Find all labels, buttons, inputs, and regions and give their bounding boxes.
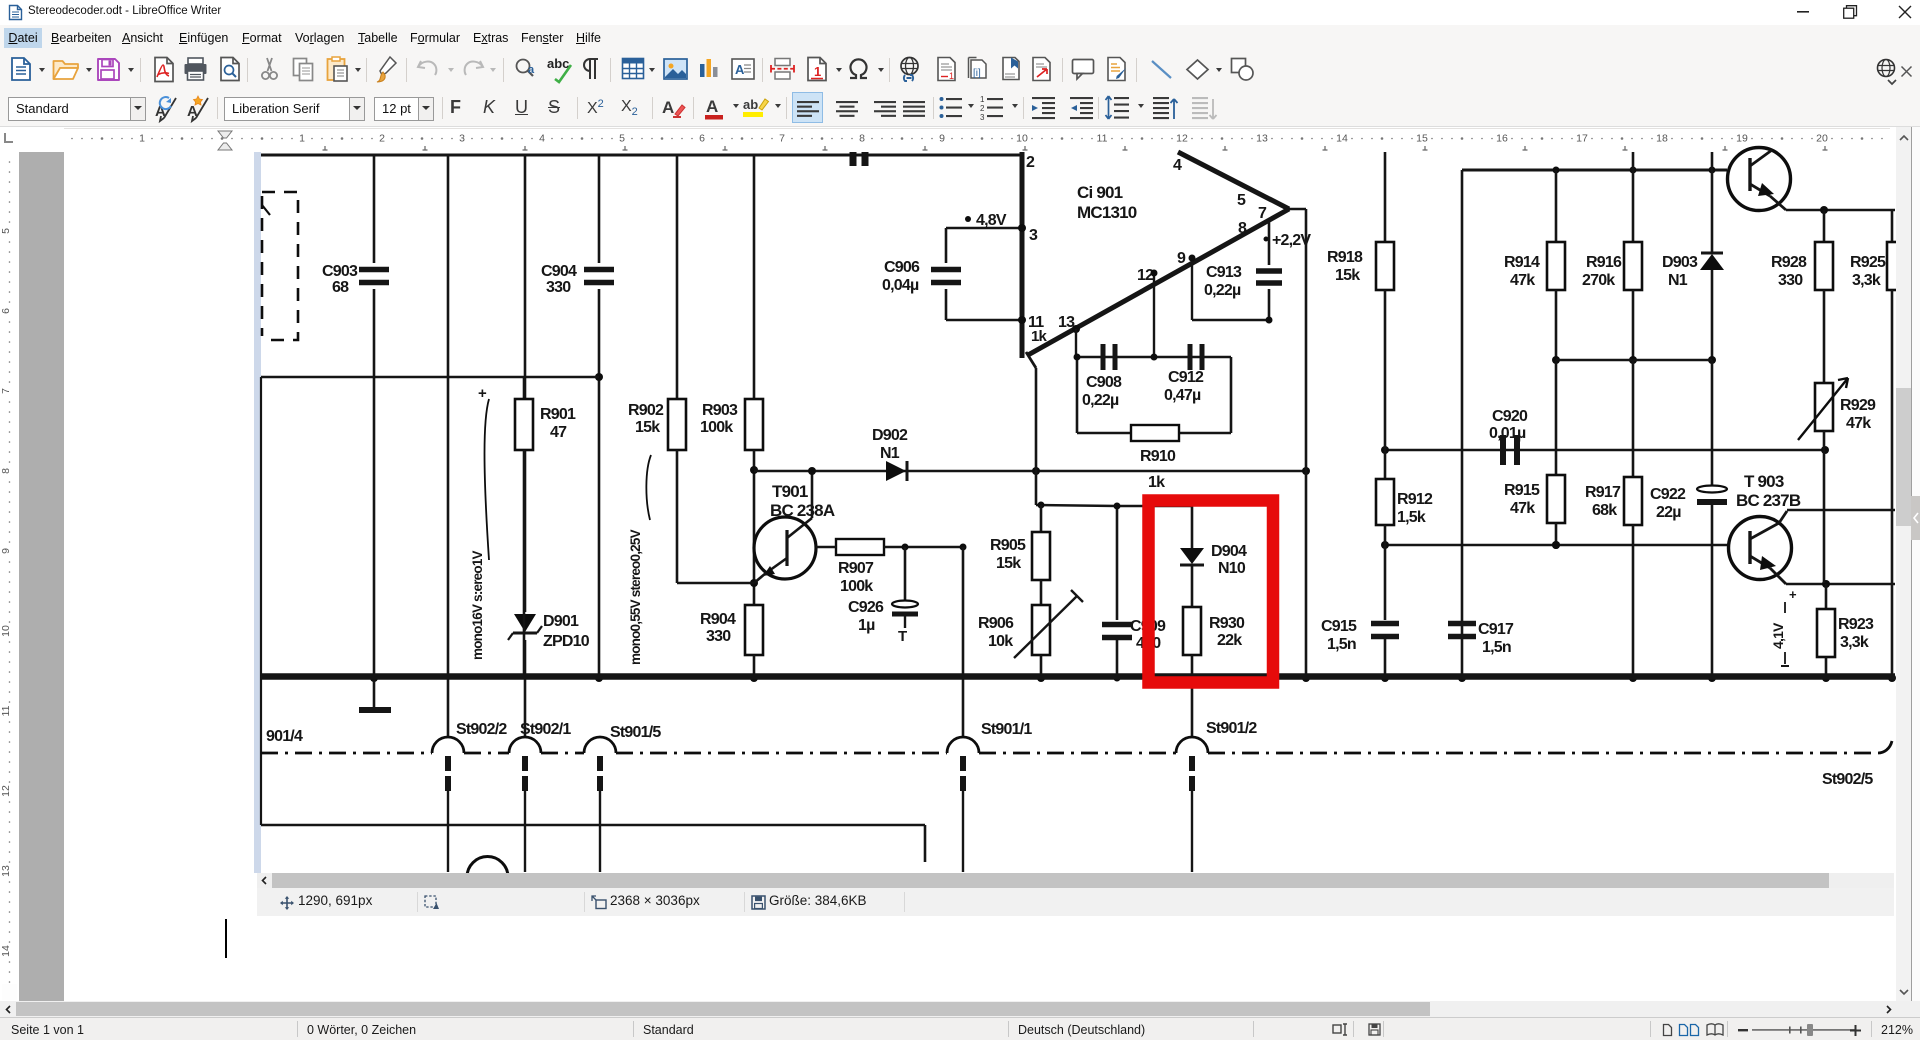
svg-text:4: 4 [1173,157,1182,174]
svg-text:15k: 15k [1335,267,1360,284]
svg-text:C913: C913 [1206,264,1242,281]
svg-text:22µ: 22µ [1656,504,1681,521]
svg-text:12: 12 [0,785,12,797]
svg-text:15k: 15k [996,555,1021,572]
svg-text:15: 15 [1416,133,1428,145]
svg-text:3: 3 [459,133,465,145]
svg-text:R906: R906 [978,615,1014,632]
svg-text:R916: R916 [1586,254,1622,271]
svg-text:C903: C903 [322,263,358,280]
svg-text:ZPD10: ZPD10 [543,633,590,650]
svg-text:5: 5 [1237,192,1246,209]
svg-text:1k: 1k [1148,474,1165,491]
svg-text:C926: C926 [848,599,884,616]
svg-text:330: 330 [706,628,731,645]
svg-text:St901/2: St901/2 [1206,720,1257,737]
svg-text:0,22µ: 0,22µ [1082,392,1119,409]
svg-text:R912: R912 [1397,491,1433,508]
svg-text:5: 5 [619,133,625,145]
svg-text:3,3k: 3,3k [1840,634,1869,651]
svg-text:1µ: 1µ [858,617,875,634]
svg-text:R915: R915 [1504,482,1540,499]
svg-text:20: 20 [1816,133,1828,145]
svg-text:4: 4 [539,133,545,145]
svg-text:3,3k: 3,3k [1852,272,1881,289]
svg-text:10k: 10k [988,633,1013,650]
svg-text:901/4: 901/4 [266,728,303,745]
svg-text:N1: N1 [880,445,900,462]
svg-text:4,1V: 4,1V [1770,622,1786,649]
svg-text:4,8V: 4,8V [976,212,1007,229]
svg-text:R903: R903 [702,402,738,419]
svg-text:BC 238A: BC 238A [770,501,835,520]
svg-text:C920: C920 [1492,408,1528,425]
svg-text:5: 5 [0,228,12,234]
svg-text:R901: R901 [540,406,576,423]
svg-text:0,01µ: 0,01µ [1489,425,1526,442]
svg-text:13: 13 [0,865,12,877]
svg-text:R929: R929 [1840,397,1876,414]
svg-text:+: + [1789,587,1797,602]
svg-text:47k: 47k [1510,500,1535,517]
svg-text:9: 9 [939,133,945,145]
svg-text:6: 6 [699,133,705,145]
svg-text:D902: D902 [872,427,908,444]
svg-text:1k: 1k [1031,328,1048,345]
svg-text:330: 330 [546,279,571,296]
svg-text:100k: 100k [700,419,733,436]
svg-text:9: 9 [1177,250,1186,267]
svg-text:R902: R902 [628,402,664,419]
svg-text:R923: R923 [1838,616,1874,633]
svg-text:17: 17 [1576,133,1588,145]
svg-text:22k: 22k [1217,632,1242,649]
svg-text:+: + [478,385,487,402]
svg-text:8: 8 [1238,220,1247,237]
svg-text:R925: R925 [1850,254,1886,271]
svg-text:St901/5: St901/5 [610,724,661,741]
svg-text:R907: R907 [838,560,874,577]
svg-text:1,5k: 1,5k [1397,509,1426,526]
svg-text:St901/1: St901/1 [981,721,1032,738]
svg-text:T 903: T 903 [1744,472,1784,491]
svg-text:R910: R910 [1140,448,1176,465]
svg-text:13: 13 [1256,133,1268,145]
svg-text:100k: 100k [840,578,873,595]
svg-text:11: 11 [0,705,12,716]
svg-text:7: 7 [0,388,12,394]
svg-text:18: 18 [1656,133,1668,145]
svg-text:12: 12 [1176,133,1188,145]
svg-text:R905: R905 [990,537,1026,554]
svg-text:19: 19 [1736,133,1748,145]
svg-text:68k: 68k [1592,502,1617,519]
svg-text:St902/2: St902/2 [456,721,507,738]
svg-text:BC 237B: BC 237B [1736,491,1801,510]
svg-text:+2,2V: +2,2V [1272,232,1311,249]
svg-text:8: 8 [859,133,865,145]
svg-text:N10: N10 [1218,560,1246,577]
svg-text:T901: T901 [772,482,808,501]
svg-text:3: 3 [1029,227,1038,244]
svg-text:47k: 47k [1510,272,1535,289]
svg-text:16: 16 [1496,133,1508,145]
svg-text:0,47µ: 0,47µ [1164,387,1201,404]
svg-text:47k: 47k [1846,415,1871,432]
svg-text:270k: 270k [1582,272,1615,289]
svg-text:15k: 15k [635,419,660,436]
svg-text:D903: D903 [1662,254,1698,271]
svg-text:0,22µ: 0,22µ [1204,282,1241,299]
svg-text:R917: R917 [1585,484,1621,501]
svg-text:St902/5: St902/5 [1822,771,1873,788]
svg-text:R918: R918 [1327,249,1363,266]
svg-text:12: 12 [1137,267,1154,284]
svg-text:C906: C906 [884,259,920,276]
svg-text:7: 7 [779,133,785,145]
svg-text:2: 2 [1026,154,1035,171]
svg-text:D901: D901 [543,613,579,630]
svg-text:C912: C912 [1168,369,1204,386]
svg-text:1,5n: 1,5n [1327,636,1356,653]
svg-text:R914: R914 [1504,254,1540,271]
svg-text:14: 14 [0,945,12,957]
svg-text:C915: C915 [1321,618,1357,635]
svg-text:St902/1: St902/1 [520,721,571,738]
svg-text:MC1310: MC1310 [1077,203,1137,222]
svg-text:C908: C908 [1086,374,1122,391]
svg-text:7: 7 [1258,205,1267,222]
svg-text:N1: N1 [1668,272,1688,289]
svg-text:R904: R904 [700,611,736,628]
svg-text:14: 14 [1336,133,1348,145]
svg-text:C904: C904 [541,263,577,280]
svg-text:0,04µ: 0,04µ [882,277,919,294]
svg-text:R930: R930 [1209,615,1245,632]
svg-text:47: 47 [550,424,567,441]
svg-text:9: 9 [0,548,12,554]
svg-text:mono16V s:ereo1V: mono16V s:ereo1V [470,550,485,660]
svg-text:1: 1 [139,133,145,145]
svg-text:10: 10 [1016,133,1028,145]
svg-text:330: 330 [1778,272,1803,289]
svg-text:mono0,55V stereo0,25V: mono0,55V stereo0,25V [628,529,643,665]
svg-text:Ci 901: Ci 901 [1077,183,1123,202]
svg-text:2: 2 [379,133,385,145]
svg-text:6: 6 [0,308,12,314]
svg-text:8: 8 [0,468,12,474]
svg-text:11: 11 [1097,133,1108,145]
svg-text:1: 1 [299,133,305,145]
svg-text:1,5n: 1,5n [1482,639,1511,656]
svg-text:T: T [898,628,907,645]
svg-text:R928: R928 [1771,254,1807,271]
svg-text:D904: D904 [1211,543,1247,560]
svg-text:68: 68 [332,279,349,296]
svg-text:10: 10 [0,625,12,637]
svg-text:C922: C922 [1650,486,1686,503]
svg-text:C917: C917 [1478,621,1514,638]
